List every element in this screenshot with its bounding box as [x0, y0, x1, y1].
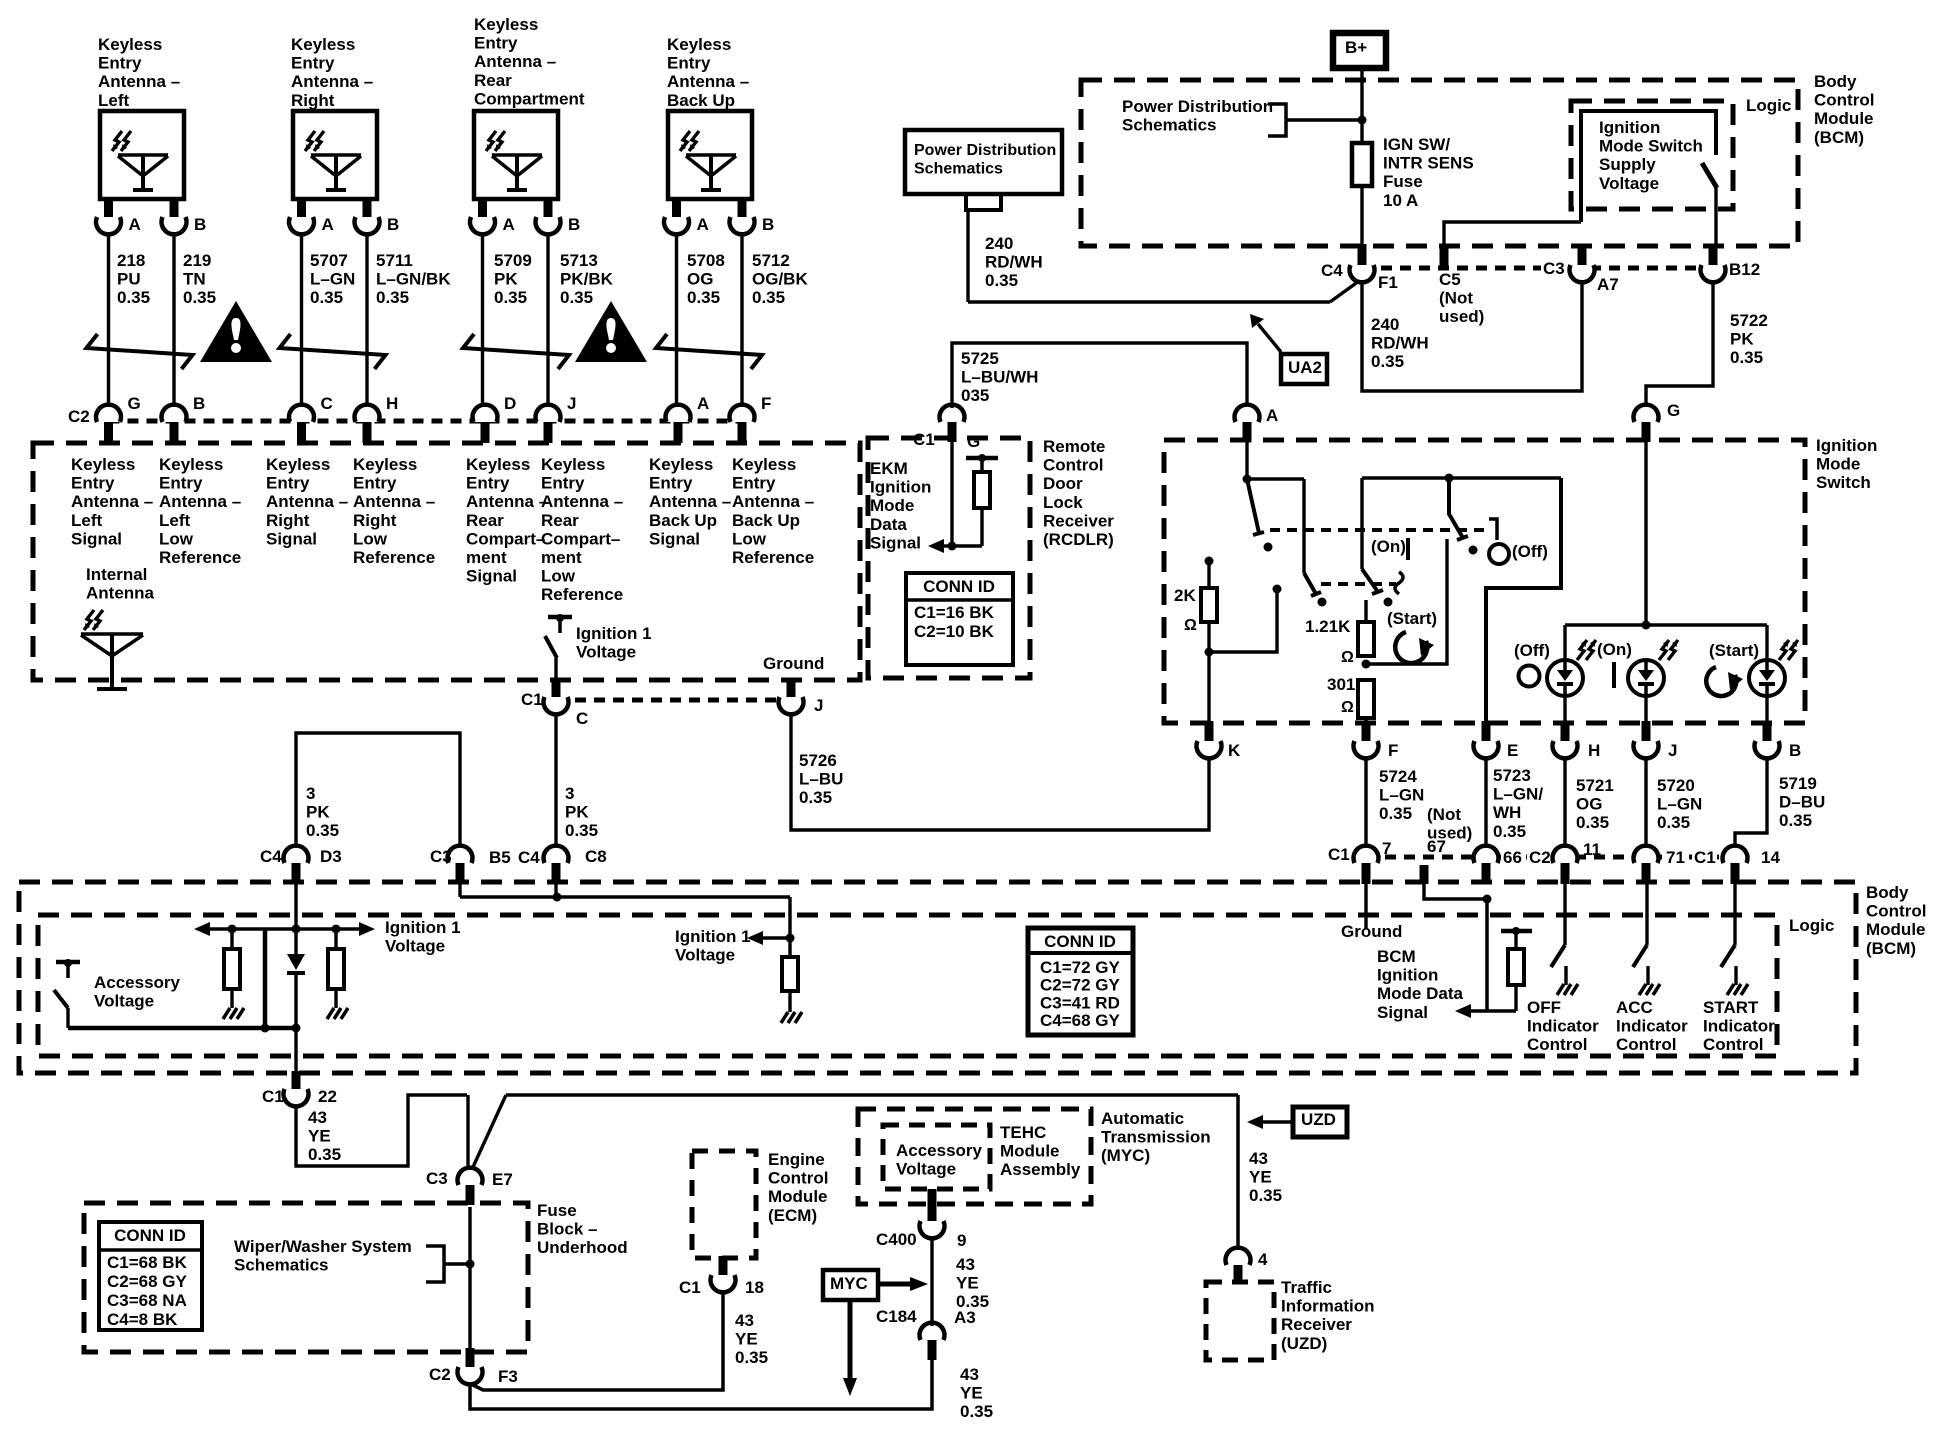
svg-text:Keyless: Keyless: [71, 455, 135, 474]
svg-text:Entry: Entry: [353, 474, 397, 493]
svg-text:Voltage: Voltage: [896, 1160, 956, 1179]
svg-text:Entry: Entry: [159, 474, 203, 493]
svg-text:L–GN: L–GN: [1379, 786, 1424, 805]
svg-text:J: J: [814, 696, 823, 715]
svg-text:18: 18: [745, 1278, 764, 1297]
svg-text:Ignition 1: Ignition 1: [675, 927, 751, 946]
svg-text:C4=8 BK: C4=8 BK: [107, 1310, 178, 1329]
svg-text:Keyless: Keyless: [649, 455, 713, 474]
svg-text:Antenna –: Antenna –: [649, 492, 731, 511]
svg-text:(ECM): (ECM): [768, 1206, 817, 1225]
svg-text:C400: C400: [876, 1230, 917, 1249]
svg-text:OG: OG: [687, 270, 713, 289]
svg-text:J: J: [1668, 741, 1677, 760]
svg-text:5712: 5712: [752, 251, 790, 270]
svg-text:Transmission: Transmission: [1101, 1128, 1211, 1147]
svg-text:Antenna –: Antenna –: [667, 72, 749, 91]
svg-text:L–GN: L–GN: [310, 270, 355, 289]
svg-text:WH: WH: [1493, 803, 1521, 822]
svg-text:Control: Control: [1527, 1035, 1587, 1054]
svg-text:Entry: Entry: [732, 474, 776, 493]
svg-text:Schematics: Schematics: [1122, 116, 1217, 135]
svg-text:Ignition 1: Ignition 1: [576, 624, 652, 643]
svg-text:Right: Right: [266, 511, 310, 530]
svg-text:0.35: 0.35: [752, 288, 785, 307]
svg-text:5723: 5723: [1493, 766, 1531, 785]
svg-text:0.35: 0.35: [735, 1348, 768, 1367]
svg-text:C2=68 GY: C2=68 GY: [107, 1272, 188, 1291]
svg-text:Antenna –: Antenna –: [291, 72, 373, 91]
svg-text:Voltage: Voltage: [94, 992, 154, 1011]
svg-text:5719: 5719: [1779, 774, 1817, 793]
svg-text:Keyless: Keyless: [98, 35, 162, 54]
svg-text:0.35: 0.35: [1730, 348, 1763, 367]
svg-text:ment: ment: [466, 548, 507, 567]
svg-text:OFF: OFF: [1527, 998, 1561, 1017]
svg-text:H: H: [1588, 741, 1600, 760]
svg-text:Back Up: Back Up: [667, 91, 735, 110]
svg-text:0.35: 0.35: [376, 288, 409, 307]
svg-text:B5: B5: [489, 848, 511, 867]
svg-text:C184: C184: [876, 1307, 917, 1326]
svg-text:Receiver: Receiver: [1281, 1315, 1352, 1334]
svg-text:67: 67: [1427, 837, 1446, 856]
svg-text:C4: C4: [1321, 261, 1343, 280]
svg-text:Voltage: Voltage: [675, 946, 735, 965]
svg-text:C5: C5: [1439, 270, 1461, 289]
svg-text:Rear: Rear: [474, 71, 512, 90]
svg-text:(Off): (Off): [1514, 641, 1550, 660]
svg-text:Ignition: Ignition: [1816, 436, 1877, 455]
svg-text:D: D: [504, 394, 516, 413]
svg-text:0.35: 0.35: [985, 271, 1018, 290]
svg-text:Reference: Reference: [541, 585, 623, 604]
svg-text:11: 11: [1583, 840, 1601, 859]
svg-text:C2: C2: [68, 407, 90, 426]
svg-text:Supply: Supply: [1599, 155, 1656, 174]
svg-text:Body: Body: [1866, 883, 1909, 902]
svg-text:Antenna –: Antenna –: [159, 492, 241, 511]
svg-text:START: START: [1703, 998, 1759, 1017]
svg-text:5713: 5713: [560, 251, 598, 270]
svg-text:0.35: 0.35: [687, 288, 720, 307]
svg-text:E: E: [1507, 741, 1518, 760]
svg-text:Rear: Rear: [541, 511, 579, 530]
svg-text:Fuse: Fuse: [537, 1201, 577, 1220]
svg-text:3: 3: [565, 784, 574, 803]
svg-text:C3: C3: [430, 847, 452, 866]
svg-text:Schematics: Schematics: [234, 1256, 329, 1275]
svg-text:Engine: Engine: [768, 1150, 825, 1169]
svg-text:Ignition: Ignition: [1599, 118, 1660, 137]
svg-text:Remote: Remote: [1043, 437, 1105, 456]
svg-text:Low: Low: [541, 567, 576, 586]
svg-text:Entry: Entry: [291, 54, 335, 73]
svg-text:0.35: 0.35: [306, 821, 339, 840]
svg-text:Control: Control: [768, 1169, 828, 1188]
svg-text:43: 43: [960, 1365, 979, 1384]
svg-text:Ω: Ω: [1184, 617, 1197, 634]
svg-text:Ignition 1: Ignition 1: [385, 918, 461, 937]
svg-text:C1: C1: [913, 430, 935, 449]
svg-text:66: 66: [1503, 848, 1522, 867]
svg-text:Keyless: Keyless: [159, 455, 223, 474]
svg-text:Ω: Ω: [1341, 699, 1354, 716]
svg-text:Mode Data: Mode Data: [1377, 984, 1464, 1003]
svg-text:B: B: [568, 215, 580, 234]
svg-text:Body: Body: [1814, 72, 1857, 91]
svg-text:D–BU: D–BU: [1779, 793, 1825, 812]
svg-text:Power Distribution: Power Distribution: [1122, 97, 1273, 116]
svg-text:Antenna –: Antenna –: [466, 492, 548, 511]
svg-text:CONN ID: CONN ID: [923, 577, 995, 596]
svg-text:Power Distribution: Power Distribution: [914, 142, 1056, 159]
svg-text:C1: C1: [1328, 845, 1350, 864]
svg-text:YE: YE: [1249, 1168, 1272, 1187]
svg-text:Signal: Signal: [649, 529, 700, 548]
svg-text:C1: C1: [262, 1087, 284, 1106]
svg-text:Module: Module: [1866, 920, 1926, 939]
svg-text:301: 301: [1327, 675, 1355, 694]
svg-text:(BCM): (BCM): [1814, 128, 1864, 147]
svg-text:Entry: Entry: [71, 474, 115, 493]
svg-text:Assembly: Assembly: [1000, 1160, 1081, 1179]
svg-text:Voltage: Voltage: [1599, 174, 1659, 193]
svg-text:Compart–: Compart–: [541, 529, 620, 548]
svg-text:(Not: (Not: [1439, 289, 1473, 308]
svg-text:Fuse: Fuse: [1383, 172, 1423, 191]
svg-text:Control: Control: [1616, 1035, 1676, 1054]
svg-text:C2: C2: [1529, 848, 1551, 867]
svg-text:(Off): (Off): [1512, 542, 1548, 561]
svg-text:Entry: Entry: [266, 474, 310, 493]
svg-text:Control: Control: [1866, 902, 1926, 921]
svg-text:Keyless: Keyless: [466, 455, 530, 474]
svg-text:H: H: [386, 394, 398, 413]
svg-text:0.35: 0.35: [799, 788, 832, 807]
svg-text:0.35: 0.35: [1779, 811, 1812, 830]
svg-text:E7: E7: [492, 1170, 513, 1189]
svg-text:B: B: [194, 215, 206, 234]
svg-text:UA2: UA2: [1288, 358, 1322, 377]
svg-text:PU: PU: [117, 270, 141, 289]
svg-text:240: 240: [985, 234, 1013, 253]
svg-text:Antenna: Antenna: [86, 584, 155, 603]
svg-text:Control: Control: [1814, 91, 1874, 110]
svg-text:F1: F1: [1378, 273, 1398, 292]
svg-text:PK: PK: [1730, 330, 1754, 349]
svg-text:CONN ID: CONN ID: [114, 1226, 186, 1245]
svg-text:7: 7: [1382, 839, 1391, 858]
svg-text:5708: 5708: [687, 251, 725, 270]
svg-text:Underhood: Underhood: [537, 1238, 628, 1257]
svg-text:C3=68 NA: C3=68 NA: [107, 1291, 187, 1310]
svg-text:Switch: Switch: [1816, 473, 1871, 492]
svg-text:C2=72 GY: C2=72 GY: [1040, 976, 1121, 995]
svg-text:035: 035: [961, 386, 989, 405]
svg-text:219: 219: [183, 251, 211, 270]
svg-text:Back Up: Back Up: [649, 511, 717, 530]
svg-text:Left: Left: [71, 511, 103, 530]
svg-text:Voltage: Voltage: [576, 643, 636, 662]
svg-text:Internal: Internal: [86, 565, 147, 584]
svg-text:Entry: Entry: [541, 474, 585, 493]
svg-text:C1=16 BK: C1=16 BK: [914, 603, 995, 622]
svg-text:C1=72 GY: C1=72 GY: [1040, 958, 1121, 977]
svg-text:YE: YE: [956, 1274, 979, 1293]
svg-text:Right: Right: [291, 91, 335, 110]
svg-text:Accessory: Accessory: [896, 1141, 983, 1160]
svg-text:Antenna –: Antenna –: [266, 492, 348, 511]
svg-text:0.35: 0.35: [494, 288, 527, 307]
svg-text:Antenna –: Antenna –: [541, 492, 623, 511]
svg-text:B: B: [387, 215, 399, 234]
svg-text:Information: Information: [1281, 1297, 1375, 1316]
svg-text:C4: C4: [260, 847, 282, 866]
svg-text:Indicator: Indicator: [1616, 1017, 1688, 1036]
svg-text:L–BU: L–BU: [799, 770, 843, 789]
svg-text:Compart–: Compart–: [466, 529, 545, 548]
svg-text:A: A: [1266, 406, 1278, 425]
svg-text:Reference: Reference: [732, 548, 814, 567]
svg-text:(On): (On): [1371, 537, 1406, 556]
svg-text:C4=68 GY: C4=68 GY: [1040, 1011, 1121, 1030]
svg-text:Block –: Block –: [537, 1220, 597, 1239]
svg-text:YE: YE: [960, 1384, 983, 1403]
svg-text:C1=68 BK: C1=68 BK: [107, 1253, 188, 1272]
svg-text:(On): (On): [1597, 640, 1632, 659]
svg-text:1.21K: 1.21K: [1305, 617, 1351, 636]
svg-text:F: F: [761, 394, 771, 413]
svg-text:L–GN/: L–GN/: [1493, 785, 1543, 804]
svg-text:YE: YE: [308, 1127, 331, 1146]
svg-text:Signal: Signal: [1377, 1003, 1428, 1022]
svg-text:C3: C3: [426, 1169, 448, 1188]
svg-text:5724: 5724: [1379, 767, 1417, 786]
svg-text:5722: 5722: [1730, 311, 1768, 330]
svg-text:L–BU/WH: L–BU/WH: [961, 368, 1038, 387]
svg-text:Left: Left: [98, 91, 130, 110]
svg-text:Wiper/Washer System: Wiper/Washer System: [234, 1237, 412, 1256]
svg-text:Schematics: Schematics: [914, 161, 1003, 178]
svg-text:5720: 5720: [1657, 776, 1695, 795]
svg-text:Control: Control: [1703, 1035, 1763, 1054]
svg-text:C2: C2: [429, 1365, 451, 1384]
svg-text:RD/WH: RD/WH: [1371, 334, 1429, 353]
svg-text:RD/WH: RD/WH: [985, 253, 1043, 272]
svg-text:Indicator: Indicator: [1527, 1017, 1599, 1036]
svg-text:43: 43: [956, 1255, 975, 1274]
svg-text:14: 14: [1761, 848, 1780, 867]
svg-text:Antenna –: Antenna –: [474, 52, 556, 71]
svg-text:C: C: [576, 709, 588, 728]
svg-text:EKM: EKM: [870, 459, 908, 478]
svg-text:OG: OG: [1576, 795, 1602, 814]
svg-text:Data: Data: [870, 515, 907, 534]
svg-text:UZD: UZD: [1301, 1110, 1336, 1129]
svg-text:2K: 2K: [1174, 586, 1196, 605]
svg-text:Traffic: Traffic: [1281, 1278, 1332, 1297]
svg-text:C4: C4: [518, 848, 540, 867]
svg-text:218: 218: [117, 251, 145, 270]
svg-text:240: 240: [1371, 315, 1399, 334]
svg-text:Keyless: Keyless: [353, 455, 417, 474]
svg-text:A: A: [697, 394, 709, 413]
svg-text:0.35: 0.35: [565, 821, 598, 840]
svg-text:(Not: (Not: [1427, 805, 1461, 824]
svg-text:Compartment: Compartment: [474, 89, 585, 108]
svg-text:Mode Switch: Mode Switch: [1599, 137, 1703, 156]
svg-text:C1: C1: [679, 1278, 701, 1297]
svg-text:5709: 5709: [494, 251, 532, 270]
svg-text:BCM: BCM: [1377, 947, 1416, 966]
svg-text:0.35: 0.35: [1576, 813, 1609, 832]
svg-text:B12: B12: [1729, 260, 1760, 279]
svg-text:Low: Low: [732, 529, 767, 548]
svg-text:0.35: 0.35: [117, 288, 150, 307]
svg-text:Antenna –: Antenna –: [71, 492, 153, 511]
svg-text:Door: Door: [1043, 474, 1083, 493]
svg-text:0.35: 0.35: [183, 288, 216, 307]
svg-text:PK: PK: [306, 803, 330, 822]
svg-text:(Start): (Start): [1709, 641, 1759, 660]
svg-text:Keyless: Keyless: [474, 15, 538, 34]
svg-text:A: A: [697, 215, 709, 234]
svg-text:5707: 5707: [310, 251, 348, 270]
svg-text:22: 22: [318, 1087, 337, 1106]
svg-text:Keyless: Keyless: [732, 455, 796, 474]
svg-text:71: 71: [1666, 848, 1685, 867]
svg-text:C1: C1: [521, 690, 543, 709]
svg-text:4: 4: [1258, 1250, 1268, 1269]
svg-text:Signal: Signal: [266, 529, 317, 548]
svg-text:C: C: [321, 394, 333, 413]
svg-text:Antenna –: Antenna –: [353, 492, 435, 511]
svg-text:Accessory: Accessory: [94, 973, 181, 992]
svg-text:Receiver: Receiver: [1043, 511, 1114, 530]
svg-text:0.35: 0.35: [1249, 1186, 1282, 1205]
svg-text:Entry: Entry: [98, 54, 142, 73]
svg-text:YE: YE: [735, 1330, 758, 1349]
svg-text:Low: Low: [159, 529, 194, 548]
svg-text:A: A: [503, 215, 515, 234]
svg-text:9: 9: [957, 1231, 966, 1250]
svg-text:(MYC): (MYC): [1101, 1146, 1150, 1165]
svg-text:TN: TN: [183, 270, 206, 289]
svg-text:43: 43: [735, 1311, 754, 1330]
svg-text:B: B: [193, 394, 205, 413]
svg-text:PK/BK: PK/BK: [560, 270, 614, 289]
svg-text:0.35: 0.35: [960, 1402, 993, 1421]
svg-text:Signal: Signal: [870, 533, 921, 552]
svg-text:Entry: Entry: [466, 474, 510, 493]
svg-text:D3: D3: [320, 847, 342, 866]
svg-text:C1: C1: [1694, 848, 1716, 867]
svg-text:5721: 5721: [1576, 776, 1614, 795]
svg-text:C3: C3: [1543, 259, 1565, 278]
svg-text:Logic: Logic: [1789, 916, 1834, 935]
svg-text:used): used): [1439, 307, 1484, 326]
svg-text:43: 43: [1249, 1149, 1268, 1168]
svg-text:43: 43: [308, 1108, 327, 1127]
svg-text:C3=41 RD: C3=41 RD: [1040, 993, 1120, 1012]
svg-text:OG/BK: OG/BK: [752, 270, 808, 289]
svg-text:ment: ment: [541, 548, 582, 567]
svg-text:Ignition: Ignition: [870, 478, 931, 497]
svg-text:Control: Control: [1043, 456, 1103, 475]
svg-text:J: J: [567, 394, 576, 413]
svg-text:Low: Low: [353, 529, 388, 548]
svg-text:B: B: [762, 215, 774, 234]
svg-text:Entry: Entry: [474, 34, 518, 53]
svg-text:A7: A7: [1597, 275, 1619, 294]
svg-text:0.35: 0.35: [1493, 822, 1526, 841]
svg-text:TEHC: TEHC: [1000, 1123, 1046, 1142]
svg-text:(BCM): (BCM): [1866, 939, 1916, 958]
svg-text:Signal: Signal: [466, 567, 517, 586]
svg-text:F3: F3: [498, 1367, 518, 1386]
svg-text:PK: PK: [494, 270, 518, 289]
svg-text:0.35: 0.35: [310, 288, 343, 307]
svg-text:IGN SW/: IGN SW/: [1383, 135, 1450, 154]
svg-text:Mode: Mode: [1816, 455, 1860, 474]
svg-text:G: G: [967, 432, 980, 451]
svg-text:Rear: Rear: [466, 511, 504, 530]
svg-text:Ground: Ground: [1341, 922, 1402, 941]
svg-text:(RCDLR): (RCDLR): [1043, 530, 1114, 549]
svg-text:Keyless: Keyless: [667, 35, 731, 54]
svg-text:B: B: [1789, 741, 1801, 760]
svg-text:L–GN: L–GN: [1657, 795, 1702, 814]
svg-text:Mode: Mode: [870, 496, 914, 515]
svg-text:0.35: 0.35: [1657, 813, 1690, 832]
svg-text:0.35: 0.35: [1371, 352, 1404, 371]
svg-text:G: G: [1667, 401, 1680, 420]
svg-text:Logic: Logic: [1746, 96, 1791, 115]
svg-text:(UZD): (UZD): [1281, 1334, 1327, 1353]
svg-text:Indicator: Indicator: [1703, 1017, 1775, 1036]
svg-text:5725: 5725: [961, 349, 999, 368]
svg-text:5711: 5711: [376, 251, 413, 270]
svg-text:Automatic: Automatic: [1101, 1109, 1184, 1128]
svg-text:Keyless: Keyless: [541, 455, 605, 474]
svg-text:Ω: Ω: [1341, 649, 1354, 666]
svg-text:Reference: Reference: [159, 548, 241, 567]
svg-text:5726: 5726: [799, 751, 837, 770]
svg-text:C2=10 BK: C2=10 BK: [914, 622, 995, 641]
svg-text:MYC: MYC: [830, 1274, 868, 1293]
svg-text:0.35: 0.35: [956, 1292, 989, 1311]
svg-text:CONN ID: CONN ID: [1044, 932, 1116, 951]
svg-text:PK: PK: [565, 803, 589, 822]
svg-text:Left: Left: [159, 511, 191, 530]
svg-text:L–GN/BK: L–GN/BK: [376, 270, 451, 289]
svg-text:Ignition: Ignition: [1377, 966, 1438, 985]
svg-text:Module: Module: [1814, 109, 1874, 128]
svg-text:Antenna –: Antenna –: [732, 492, 814, 511]
svg-text:(Start): (Start): [1387, 609, 1437, 628]
svg-text:Ground: Ground: [763, 654, 824, 673]
svg-text:INTR SENS: INTR SENS: [1383, 154, 1474, 173]
svg-text:3: 3: [306, 784, 315, 803]
svg-text:Module: Module: [768, 1187, 828, 1206]
svg-text:0.35: 0.35: [560, 288, 593, 307]
svg-text:Reference: Reference: [353, 548, 435, 567]
svg-text:Signal: Signal: [71, 529, 122, 548]
svg-text:10 A: 10 A: [1383, 191, 1418, 210]
svg-text:F: F: [1388, 741, 1398, 760]
svg-text:A: A: [129, 215, 141, 234]
